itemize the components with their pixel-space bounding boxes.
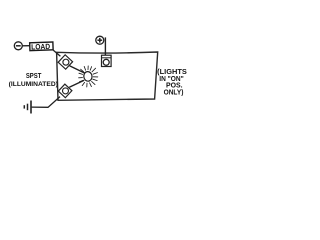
wire positive terminal down to terminal 2 — [104, 37, 106, 56]
terminal 2 square (power) — [102, 55, 112, 66]
switch body outline — [57, 52, 158, 100]
wire terminal 3 to lamp — [69, 80, 84, 87]
LOAD box — [30, 42, 53, 51]
note lights in on pos only — [157, 67, 187, 96]
lamp bulb — [83, 71, 92, 82]
wire negative terminal to LOAD box — [22, 45, 30, 47]
wire LOAD box to terminal 1 — [53, 50, 61, 56]
wire terminal 1 to lamp — [70, 66, 85, 73]
svg-text:ONLY): ONLY) — [164, 87, 184, 96]
terminal 1 diamond (load side) — [58, 55, 72, 69]
svg-text:SPST: SPST — [26, 71, 42, 80]
wire ground to terminal 3 — [32, 97, 60, 108]
ground symbol — [24, 101, 31, 114]
svg-text:LOAD: LOAD — [31, 42, 51, 52]
terminal 3 diamond (ground side) — [58, 84, 72, 98]
LOAD label — [31, 42, 51, 52]
lamp starburst rays — [79, 66, 98, 87]
battery positive terminal — [96, 36, 104, 44]
battery negative terminal — [14, 42, 22, 50]
svg-text:(ILLUMINATED): (ILLUMINATED) — [9, 82, 58, 88]
